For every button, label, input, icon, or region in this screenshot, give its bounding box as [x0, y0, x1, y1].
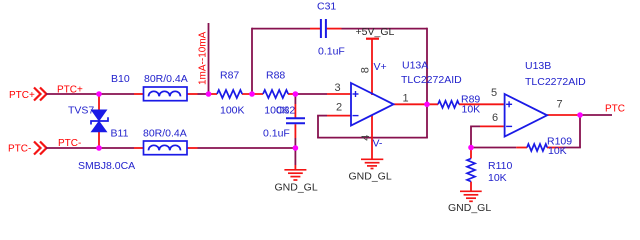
- svg-text:TLC2272AID: TLC2272AID: [401, 74, 462, 86]
- op-amp U13A: [351, 83, 394, 126]
- resistor R88: [263, 90, 288, 98]
- svg-text:U13A: U13A: [402, 60, 428, 72]
- capacitor C32: [286, 118, 305, 123]
- port PTC-: [8, 142, 47, 155]
- wire current annotation stem: [208, 23, 210, 94]
- svg-text:0.1uF: 0.1uF: [263, 128, 290, 140]
- svg-text:SMBJ8.0CA: SMBJ8.0CA: [78, 160, 135, 172]
- svg-text:GND_GL: GND_GL: [448, 202, 491, 214]
- pin 8 V+ supply: [371, 40, 373, 96]
- pin 2 U13A: [327, 115, 351, 117]
- pin R87-R88 link: [242, 93, 263, 95]
- pin R89 right to pin 5: [459, 103, 504, 105]
- pin 4 V- supply: [371, 115, 373, 159]
- svg-text:10K: 10K: [462, 104, 481, 116]
- svg-text:TLC2272AID: TLC2272AID: [525, 76, 586, 88]
- wire PTC- rail: [46, 147, 134, 149]
- capacitor C31: [321, 19, 326, 38]
- svg-text:GND_GL: GND_GL: [349, 170, 392, 182]
- svg-text:1: 1: [403, 93, 409, 105]
- pin B10 right: [187, 93, 198, 95]
- svg-text:B11: B11: [111, 127, 129, 139]
- wire U13A feedback bottom: [317, 137, 428, 139]
- junction node R110/R109/pin6: [468, 145, 474, 151]
- pin B11 left: [134, 147, 144, 149]
- junction node annotation stem: [206, 91, 212, 97]
- svg-text:100K: 100K: [220, 105, 245, 117]
- junction node U13A output: [424, 102, 430, 108]
- svg-text:7: 7: [557, 99, 563, 111]
- junction node U13B output: [577, 112, 583, 118]
- wire output to PTC: [580, 114, 612, 116]
- wire C31 left leg: [251, 28, 253, 94]
- wire U13B output leg: [579, 115, 581, 148]
- wire C32 upper: [294, 94, 296, 104]
- op-amp U13B: [505, 94, 547, 137]
- svg-text:+5V_GL: +5V_GL: [356, 26, 395, 38]
- svg-text:B10: B10: [111, 73, 130, 85]
- resistor R89: [438, 101, 459, 108]
- svg-text:3: 3: [335, 82, 341, 94]
- pin C32 bottom: [294, 124, 296, 138]
- pin 7 U13B output: [547, 114, 580, 116]
- wire bead B10 to node: [198, 93, 210, 95]
- svg-text:0.1uF: 0.1uF: [318, 46, 345, 58]
- wire node to R109: [470, 147, 516, 149]
- wire C31 right leg: [426, 28, 428, 105]
- pin B11 right: [187, 147, 198, 149]
- svg-text:U13B: U13B: [525, 60, 551, 72]
- junction node C32/PTC-/ground: [293, 145, 299, 151]
- svg-text:1mA--10mA: 1mA--10mA: [198, 31, 209, 85]
- pin TVS7 bottom: [98, 132, 100, 149]
- svg-text:TVS7: TVS7: [68, 105, 94, 117]
- svg-text:R110: R110: [488, 160, 512, 172]
- svg-text:R87: R87: [220, 70, 239, 82]
- ground GND_GL under C32: [275, 170, 318, 194]
- svg-text:4: 4: [360, 135, 372, 141]
- wire pin 6 node: [471, 126, 480, 147]
- ground GND_GL under R110: [448, 191, 491, 214]
- pin R110 top: [470, 148, 472, 159]
- svg-text:PTC-: PTC-: [8, 144, 31, 155]
- pin 6 U13B: [480, 125, 504, 127]
- pin R109 right: [547, 147, 562, 149]
- svg-text:C32: C32: [276, 105, 295, 117]
- pin C31 left: [310, 28, 320, 30]
- ferrite bead B11: [144, 141, 188, 155]
- resistor R109: [527, 144, 547, 151]
- svg-text:PTC+: PTC+: [9, 90, 35, 101]
- svg-text:PTC: PTC: [605, 104, 625, 115]
- ground GND_GL under U13A: [349, 159, 392, 182]
- junction node R88/C32/pin3: [293, 91, 299, 97]
- svg-text:GND_GL: GND_GL: [275, 181, 318, 193]
- svg-text:6: 6: [492, 112, 498, 124]
- pin 1 U13A output: [394, 103, 439, 105]
- wire C32 lower to ground: [294, 138, 296, 165]
- TVS diode TVS7: [91, 110, 108, 132]
- wire R109 to output leg: [562, 147, 581, 149]
- pin B10 left: [134, 93, 144, 95]
- ferrite bead B10: [144, 87, 188, 101]
- resistor R87: [217, 90, 242, 98]
- wire U13A feedback left leg: [317, 116, 319, 138]
- svg-text:R88: R88: [266, 70, 285, 82]
- wire C31 top left: [252, 28, 310, 30]
- svg-text:10K: 10K: [548, 145, 567, 157]
- svg-text:2: 2: [336, 102, 342, 114]
- resistor R110: [467, 159, 475, 182]
- pin TVS7 top: [98, 94, 100, 111]
- wire bead B11 to C32 node: [198, 147, 296, 149]
- pin R88 right: [288, 93, 295, 95]
- wire PTC+ rail: [46, 93, 134, 95]
- svg-text:10K: 10K: [488, 172, 507, 184]
- port PTC+: [9, 88, 47, 102]
- junction node PTC+/TVS: [96, 91, 102, 97]
- svg-text:V+: V+: [374, 61, 387, 73]
- svg-text:80R/0.4A: 80R/0.4A: [144, 73, 188, 85]
- pin R87 left: [209, 93, 218, 95]
- pin 3 U13A: [327, 93, 351, 95]
- pin R110 bottom: [470, 182, 472, 192]
- power +5V_GL: [356, 26, 395, 39]
- svg-text:V-: V-: [373, 138, 383, 150]
- pin ground stub C32: [294, 165, 296, 170]
- pin C31 right: [327, 28, 342, 30]
- svg-text:5: 5: [491, 87, 497, 99]
- wire to pin 2: [317, 115, 327, 117]
- svg-text:C31: C31: [317, 1, 336, 13]
- svg-text:80R/0.4A: 80R/0.4A: [143, 127, 187, 139]
- svg-text:8: 8: [359, 67, 371, 73]
- wire U13A feedback right leg: [426, 104, 428, 137]
- pin C32 top: [294, 104, 296, 118]
- wire C31 top right: [342, 28, 428, 30]
- wire node to pin 3: [295, 93, 327, 95]
- junction node PTC-/TVS: [96, 145, 102, 151]
- junction node R87/R88/C31: [249, 91, 255, 97]
- pin R109 left: [516, 147, 527, 149]
